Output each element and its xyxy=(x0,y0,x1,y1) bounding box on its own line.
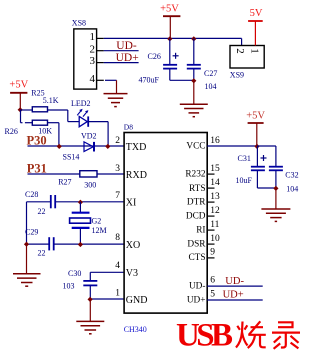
svg-text:D8: D8 xyxy=(124,123,133,132)
title hanzi lu xyxy=(272,322,300,349)
svg-text:5.1K: 5.1K xyxy=(43,96,59,105)
svg-text:11: 11 xyxy=(210,220,219,230)
svg-text:2: 2 xyxy=(90,43,96,55)
svg-text:LED2: LED2 xyxy=(71,99,91,108)
svg-text:DSR: DSR xyxy=(187,239,206,249)
svg-text:R26: R26 xyxy=(5,127,18,136)
svg-text:R232: R232 xyxy=(185,169,205,179)
svg-text:+5V: +5V xyxy=(160,3,179,14)
node junction R26 TXD xyxy=(57,144,62,149)
svg-text:3: 3 xyxy=(115,164,120,174)
crystal G2 12M xyxy=(70,202,107,244)
svg-text:5: 5 xyxy=(210,290,215,300)
pin stub 14 xyxy=(207,187,214,189)
ground below C30 xyxy=(76,299,104,334)
node junction VCC xyxy=(254,144,259,149)
svg-text:USB: USB xyxy=(176,318,233,352)
power +5V left xyxy=(9,80,28,110)
svg-text:C32: C32 xyxy=(285,171,298,180)
wire XS8 pin1 to +5V node xyxy=(104,37,242,39)
resistor R25 5.1K xyxy=(20,89,68,112)
resistor R26 10K xyxy=(5,110,59,146)
svg-text:C31: C31 xyxy=(238,154,251,163)
capacitor C32 104 xyxy=(257,146,298,194)
svg-text:V3: V3 xyxy=(126,268,138,279)
svg-text:SS14: SS14 xyxy=(63,152,80,161)
resistor R27 300 xyxy=(58,171,97,190)
svg-text:+5V: +5V xyxy=(246,111,265,122)
svg-text:UD-: UD- xyxy=(225,276,244,287)
svg-text:DCD: DCD xyxy=(186,211,206,221)
svg-text:XI: XI xyxy=(126,198,137,209)
wire XS8 pin4 to ground xyxy=(105,80,117,93)
svg-text:C26: C26 xyxy=(148,52,161,61)
pin stub 13 xyxy=(207,201,214,203)
svg-text:DTR: DTR xyxy=(187,197,206,207)
svg-text:UD+: UD+ xyxy=(116,52,139,64)
wire C31 bottom to C32 bottom xyxy=(257,187,276,189)
svg-text:5V: 5V xyxy=(250,8,263,19)
svg-text:7: 7 xyxy=(115,191,120,201)
node junction caps bottom xyxy=(191,78,196,83)
svg-text:300: 300 xyxy=(84,180,96,189)
ground left rail xyxy=(13,274,41,287)
diode VD2 SS14 xyxy=(63,132,97,162)
pin stub 9 xyxy=(207,257,214,259)
node junction C26 top xyxy=(167,36,172,41)
wire UD- net pin6 xyxy=(207,276,263,287)
svg-text:1: 1 xyxy=(249,48,261,54)
capacitor C27 104 xyxy=(187,38,218,91)
svg-text:13: 13 xyxy=(210,192,220,202)
svg-text:15: 15 xyxy=(210,164,220,174)
svg-text:10: 10 xyxy=(210,234,220,244)
power +5V right xyxy=(246,111,265,147)
connector XS8 xyxy=(72,19,104,90)
wire RXD net left xyxy=(28,173,80,175)
connector XS9 xyxy=(230,46,264,80)
node junction GND C30 xyxy=(88,297,93,302)
svg-text:1: 1 xyxy=(115,288,120,298)
svg-text:6: 6 xyxy=(210,276,215,286)
svg-text:VCC: VCC xyxy=(186,141,205,151)
node junction C27 top xyxy=(191,36,196,41)
svg-text:1: 1 xyxy=(90,31,96,43)
svg-text:22: 22 xyxy=(38,207,46,216)
wire TXD net xyxy=(28,145,125,147)
svg-text:22: 22 xyxy=(38,248,46,257)
node junction C32 ground xyxy=(273,186,278,191)
svg-text:104: 104 xyxy=(286,185,298,194)
wire node to XS9 pin2 xyxy=(241,38,243,45)
node junction XI xyxy=(78,200,83,205)
svg-text:16: 16 xyxy=(210,136,220,146)
capacitor C31 10uF xyxy=(236,146,267,188)
svg-text:XO: XO xyxy=(126,240,140,251)
svg-text:103: 103 xyxy=(63,282,75,291)
svg-text:UD+: UD+ xyxy=(223,290,244,301)
svg-text:UD-: UD- xyxy=(116,40,137,52)
pin stub 12 xyxy=(207,215,214,217)
pin stub 11 xyxy=(207,229,214,231)
svg-text:UD+: UD+ xyxy=(187,295,206,305)
svg-text:XS8: XS8 xyxy=(72,19,86,28)
svg-text:XS9: XS9 xyxy=(230,71,244,80)
svg-text:CH340: CH340 xyxy=(124,325,147,334)
ground below C31 C32 xyxy=(261,188,290,221)
svg-text:14: 14 xyxy=(210,178,220,188)
svg-text:8: 8 xyxy=(115,233,120,243)
wire XS8 pin3 net UD+ xyxy=(104,52,139,64)
svg-text:12: 12 xyxy=(210,206,220,216)
wire XI net xyxy=(80,201,124,203)
power 5V for XS9 xyxy=(248,8,263,46)
svg-text:VD2: VD2 xyxy=(81,132,97,141)
svg-text:TXD: TXD xyxy=(126,142,147,153)
ground below C26 C27 xyxy=(180,80,208,116)
capacitor C28 22 xyxy=(25,190,80,216)
pin stub 15 xyxy=(207,173,214,175)
svg-text:2: 2 xyxy=(115,136,120,146)
svg-text:GND: GND xyxy=(126,295,148,306)
node junction C29 rail xyxy=(24,242,29,247)
svg-text:12M: 12M xyxy=(92,226,107,235)
svg-text:104: 104 xyxy=(205,82,217,91)
wire RXD net right xyxy=(97,173,124,175)
svg-text:UD-: UD- xyxy=(189,281,206,291)
wire XO net xyxy=(80,243,124,245)
node junction LED2 TXD xyxy=(105,144,110,149)
svg-text:+5V: +5V xyxy=(9,80,28,91)
svg-text:RI: RI xyxy=(196,225,205,235)
svg-text:R27: R27 xyxy=(58,178,71,187)
svg-text:P31: P31 xyxy=(27,161,47,175)
LED LED2 xyxy=(68,99,108,146)
wire UD+ net pin5 xyxy=(207,290,263,301)
svg-text:CTS: CTS xyxy=(188,253,205,263)
node junction R25 R26 feed xyxy=(18,107,23,112)
svg-text:G2: G2 xyxy=(92,217,102,226)
wire XS8 pin2 net UD- xyxy=(104,40,139,52)
svg-text:9: 9 xyxy=(210,248,215,258)
power +5V top middle xyxy=(160,3,180,38)
svg-text:470uF: 470uF xyxy=(139,76,160,85)
svg-text:10uF: 10uF xyxy=(236,176,253,185)
svg-text:2: 2 xyxy=(234,48,246,54)
IC D8 CH340 xyxy=(124,123,208,335)
wire C26 bottom to C27 bottom xyxy=(170,79,194,81)
node junction XO xyxy=(78,242,83,247)
title hanzi shao xyxy=(236,321,266,348)
capacitor C30 103 xyxy=(63,269,125,299)
svg-text:C27: C27 xyxy=(204,69,217,78)
svg-text:RXD: RXD xyxy=(126,170,147,181)
svg-text:4: 4 xyxy=(115,261,120,271)
svg-text:C28: C28 xyxy=(25,190,38,199)
capacitor C26 470uF xyxy=(139,38,179,84)
svg-text:RTS: RTS xyxy=(189,184,206,194)
capacitor C29 22 xyxy=(25,228,80,258)
ground below XS8 pin4 xyxy=(104,94,128,107)
pin stub 10 xyxy=(207,243,214,245)
svg-text:3: 3 xyxy=(90,55,96,67)
wire VCC net xyxy=(207,145,257,147)
wire left rail xyxy=(26,202,28,274)
svg-text:C30: C30 xyxy=(68,269,81,278)
svg-text:4: 4 xyxy=(90,73,96,85)
wire GND net xyxy=(90,298,124,300)
